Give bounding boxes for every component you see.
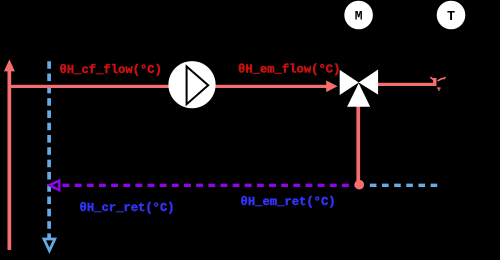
- wire: red vertical supply line left: [8, 66, 12, 250]
- wire: red stub right of valve: [378, 83, 436, 86]
- wire: cold return dashed blue vertical line: [47, 61, 51, 239]
- node: junction dot on return line: [355, 180, 365, 190]
- sensor T: thermostat circle: [437, 1, 466, 30]
- svg-text:M: M: [355, 9, 363, 24]
- svg-text:θH_em_ret(°C): θH_em_ret(°C): [241, 195, 336, 209]
- wire: red stub from valve down to junction: [356, 106, 360, 182]
- arrow: blue open arrowhead down at bottom of return line: [44, 239, 55, 251]
- svg-text:θH_cf_flow(°C): θH_cf_flow(°C): [60, 63, 162, 77]
- svg-text:θH_em_flow(°C): θH_em_flow(°C): [238, 62, 340, 76]
- svg-text:T: T: [447, 10, 455, 25]
- wire: dashed light blue horizontal line right of junction: [370, 184, 438, 187]
- valve V1: three-way mixing valve: [340, 70, 378, 107]
- pump P1: circle with triangle: [168, 61, 215, 108]
- wire: emitter return dashed purple horizontal line: [63, 184, 359, 187]
- arrow: purple open arrowhead left at start of return line: [50, 181, 60, 190]
- arrow: red filled arrowhead right at valve inlet: [326, 81, 337, 93]
- wire: red horizontal flow line to pump and valve: [8, 85, 331, 88]
- svg-text:θH_cr_ret(°C): θH_cr_ret(°C): [80, 201, 175, 215]
- arrow: red filled arrowhead up on supply line: [4, 59, 15, 71]
- arrow: small squiggle arrow mark at right line end: [430, 77, 445, 91]
- sensor M: motor actuator circle: [344, 1, 373, 30]
